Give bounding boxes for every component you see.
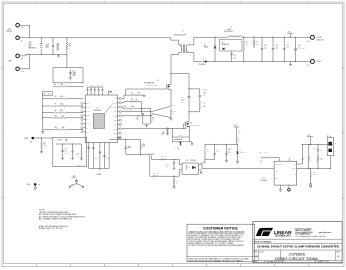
svg-text:FB: FB: [115, 137, 117, 139]
svg-text:IC NO.: IC NO.: [259, 251, 264, 253]
capacitor C4 bottom: [103, 154, 105, 156]
svg-text:C10: C10: [162, 132, 165, 134]
svg-text:61.9k: 61.9k: [76, 154, 79, 156]
svg-text:CTLHR10-06: CTLHR10-06: [198, 64, 206, 66]
svg-text:1: 1: [177, 53, 178, 55]
svg-text:100kHz: 100kHz: [77, 165, 81, 167]
op-amp U3 LT4430ES6: [274, 161, 297, 185]
svg-text:1k: 1k: [152, 119, 154, 121]
svg-text:OPT: OPT: [137, 93, 140, 95]
logo LT glyph: [256, 228, 273, 236]
svg-text:0805: 0805: [73, 75, 76, 77]
svg-text:OPT: OPT: [48, 94, 51, 96]
resistor R16 sense: [170, 109, 171, 117]
resistor R8 107k: [53, 112, 67, 113]
svg-text:GND: GND: [275, 177, 278, 179]
svg-text:CMHZ4697: CMHZ4697: [240, 151, 247, 153]
ground Q2 snubber: [189, 142, 192, 143]
svg-text:SUPPLIED FOR USE WITH LINEAR T: SUPPLIED FOR USE WITH LINEAR TECHNOLOGY …: [188, 259, 243, 262]
svg-text:C19: C19: [166, 164, 169, 166]
border zone ticks top: [36, 2, 38, 3]
diode D4 zener CMHZ4697: [237, 144, 239, 151]
svg-text:JP1: JP1: [327, 136, 330, 138]
wire comp net: [109, 138, 141, 140]
resistor R23 100: [121, 110, 124, 112]
svg-text:1206: 1206: [237, 141, 240, 143]
resistor R20 240: [173, 176, 175, 179]
resistor R5 OPT: [121, 95, 131, 98]
svg-text:C11: C11: [73, 175, 76, 177]
svg-text:Fax: (408)434-0507: Fax: (408)434-0507: [295, 233, 310, 236]
svg-text:-VIN: -VIN: [8, 61, 12, 63]
customer notice divider: [187, 256, 255, 258]
svg-text:OV: OV: [294, 174, 296, 176]
svg-text:100k: 100k: [301, 159, 304, 161]
svg-text:63HVH47M: 63HVH47M: [298, 48, 304, 50]
wire divider feed: [66, 50, 68, 68]
svg-text:OUT: OUT: [114, 111, 117, 113]
svg-text:63V: 63V: [29, 46, 31, 48]
svg-text:AOUT: AOUT: [113, 106, 117, 109]
wire clamp return: [189, 110, 200, 112]
svg-text:N/A: N/A: [254, 255, 258, 258]
svg-text:+VOUT: +VOUT: [317, 37, 322, 39]
svg-text:OPT: OPT: [181, 102, 184, 104]
title block outline: [253, 222, 342, 263]
svg-text:10: 10: [238, 132, 240, 134]
rev cell: [335, 250, 337, 260]
capacitor C2 bottom: [92, 147, 94, 149]
svg-text:D1: D1: [157, 80, 159, 82]
capacitor C28: [72, 144, 74, 151]
svg-text:R5: R5: [131, 93, 133, 95]
wire kelvin sense+: [132, 106, 171, 111]
svg-text:TITLE: SCHEMATIC: TITLE: SCHEMATIC: [254, 241, 273, 244]
svg-text:SYNC: SYNC: [86, 123, 90, 125]
capacitor C24: [317, 145, 319, 150]
border zone ticks right: [342, 67, 344, 69]
svg-text:R22: R22: [43, 143, 46, 145]
svg-text:C6E: C6E: [57, 50, 60, 52]
svg-text:SGND: SGND: [97, 174, 102, 176]
svg-text:240: 240: [176, 182, 178, 184]
svg-text:100k: 100k: [60, 84, 63, 86]
resistor R28 4M: [199, 97, 201, 102]
wire opto emitter: [199, 170, 202, 172]
svg-text:R10: R10: [55, 115, 58, 117]
capacitor C1A: [214, 144, 216, 154]
svg-text:0.1µF: 0.1µF: [216, 150, 219, 152]
svg-text:4.32k: 4.32k: [60, 104, 64, 106]
svg-text:ALL CERAMIC CAPACITORS ARE X7R: ALL CERAMIC CAPACITORS ARE X7R: [39, 218, 73, 221]
svg-text:BSC046N10NS3-G: BSC046N10NS3-G: [147, 85, 158, 87]
svg-text:R17: R17: [69, 44, 72, 46]
U1 top pins: [87, 91, 89, 95]
svg-text:U1: U1: [97, 108, 99, 110]
svg-text:2200pF: 2200pF: [72, 177, 77, 179]
svg-text:R21: R21: [124, 106, 127, 108]
ground sense resistor: [170, 117, 172, 119]
svg-text:INTVCC: INTVCC: [57, 140, 62, 142]
svg-text:R19: R19: [142, 144, 145, 146]
capacitor C5 100uF: [125, 139, 127, 147]
capacitor C2B: [225, 144, 227, 154]
U1 exposed pad: [93, 114, 104, 129]
resistor R19 100k: [140, 139, 142, 144]
svg-text:12.7k: 12.7k: [60, 96, 64, 98]
ground output: [290, 62, 292, 65]
svg-text:C4: C4: [97, 84, 99, 86]
svg-text:BOARD SIZE: 4.75" BY 2.80": BOARD SIZE: 4.75" BY 2.80": [39, 227, 63, 230]
svg-text:C1: C1: [237, 137, 239, 139]
svg-text:1µF: 1µF: [95, 158, 97, 160]
wire primary top: [171, 40, 181, 45]
svg-text:RT: RT: [86, 119, 88, 121]
svg-text:T1: T1: [182, 31, 184, 33]
svg-text:OPT: OPT: [320, 150, 323, 152]
svg-text:D9: D9: [204, 45, 206, 47]
svg-text:R16: R16: [173, 105, 176, 107]
wire fb row return: [205, 159, 215, 161]
wire U3 top feed: [288, 158, 290, 161]
svg-text:2.2µF: 2.2µF: [165, 166, 168, 168]
svg-text:R4: R4: [131, 99, 133, 101]
svg-text:E3: E3: [22, 27, 24, 29]
svg-text:+VIN: +VIN: [7, 29, 12, 31]
svg-text:VOUT–: VOUT–: [317, 61, 322, 63]
diode D9 freewheel: [214, 37, 216, 45]
wire +VIN rail: [30, 37, 171, 39]
date row: [264, 260, 266, 262]
svg-text:1206: 1206: [234, 58, 237, 60]
svg-text:1µF: 1µF: [102, 84, 104, 86]
svg-text:OFF: OFF: [334, 150, 337, 152]
diode D5 BAS516: [179, 142, 182, 144]
svg-text:R18: R18: [153, 173, 156, 175]
resistor R10 41.2k: [53, 117, 67, 118]
svg-text:0.010: 0.010: [173, 111, 176, 113]
svg-text:E1: E1: [39, 184, 41, 186]
svg-text:LT3753EFE: LT3753EFE: [93, 110, 101, 112]
svg-text:COMP: COMP: [292, 168, 296, 170]
U1 bottom pins: [88, 143, 90, 169]
wire top caps bus: [88, 86, 103, 88]
svg-text:ISNS+: ISNS+: [113, 120, 117, 122]
svg-text:CMMR1U-06: CMMR1U-06: [222, 44, 230, 46]
ground GND terminal: [34, 186, 36, 188]
svg-text:C5: C5: [128, 145, 130, 147]
svg-text:51k: 51k: [43, 145, 45, 147]
wire VIN rail drop: [170, 38, 172, 40]
wire comp feed: [301, 145, 303, 164]
svg-text:R29: R29: [313, 172, 316, 174]
svg-text:Thursday, July 23, 2015: Thursday, July 23, 2015: [266, 260, 284, 263]
svg-text:E9: E9: [308, 65, 310, 67]
wire divider left bus: [42, 94, 44, 130]
wire opto collector: [199, 165, 275, 169]
svg-text:IN: IN: [294, 163, 295, 165]
svg-text:C2: C2: [86, 84, 88, 86]
wire U3 right pins: [297, 163, 303, 165]
svg-text:DELAY: DELAY: [86, 102, 90, 105]
svg-text:PQ20/150-500: PQ20/150-500: [224, 31, 233, 33]
wire secondary top: [187, 37, 215, 45]
capacitor C22 output: [261, 37, 263, 48]
svg-text:PS2801-1: PS2801-1: [190, 160, 196, 162]
svg-text:R7: R7: [55, 104, 57, 106]
svg-text:GND: GND: [27, 184, 31, 186]
svg-text:18V-36V: 18V-36V: [6, 31, 12, 33]
capacitor C26 output bulk: [295, 37, 297, 48]
transistor Q4 OPT: [43, 91, 53, 95]
resistor R13 1M snubber: [253, 40, 254, 46]
U3 bottom pins: [280, 185, 282, 190]
snubber R25 box: [172, 137, 189, 142]
svg-text:10nF: 10nF: [237, 139, 240, 141]
svg-text:250V: 250V: [71, 184, 74, 186]
svg-text:TECHNOLOGY APPLICATIONS ENGINE: TECHNOLOGY APPLICATIONS ENGINEERING FOR …: [188, 244, 244, 247]
net +VO flag: [290, 33, 292, 37]
snubber D8 box: [220, 40, 243, 52]
svg-text:100µH: 100µH: [227, 29, 231, 31]
svg-text:10: 10: [157, 173, 159, 175]
svg-text:R25 10: R25 10: [178, 134, 182, 136]
border zone ticks left: [2, 67, 4, 69]
svg-text:ON: ON: [334, 143, 336, 145]
svg-text:100k: 100k: [142, 146, 145, 148]
resistor R30 100k: [308, 145, 310, 156]
wire secondary bottom: [187, 52, 202, 61]
capacitor C1 bottom: [88, 146, 90, 148]
U1 right pins: [118, 97, 120, 99]
customer notice box: [187, 224, 255, 262]
svg-text:PQ26/20 (D3)-GP3: PQ26/20 (D3)-GP3: [174, 35, 186, 37]
transistor Q2 clamp switch: [185, 122, 187, 127]
svg-text:R6: R6: [54, 84, 56, 86]
svg-text:C17: C17: [136, 117, 139, 119]
svg-text:Q2: Q2: [190, 123, 192, 125]
svg-text:107k: 107k: [60, 110, 63, 112]
svg-text:Q4: Q4: [44, 94, 46, 96]
resistor R22 51k: [41, 142, 42, 150]
ground top caps: [108, 90, 111, 92]
svg-text:1.2k: 1.2k: [207, 150, 210, 152]
svg-text:7: 7: [190, 43, 191, 45]
svg-text:BSC093N04LS-G: BSC093N04LS-G: [190, 125, 200, 127]
capacitor C12: [62, 144, 64, 150]
U1 left pins: [84, 102, 86, 104]
svg-text:D4: D4: [240, 150, 242, 152]
border zone ticks bottom: [36, 264, 38, 267]
svg-text:0805: 0805: [65, 153, 68, 155]
svg-text:INTVCC: INTVCC: [112, 102, 117, 104]
wire clamp branch: [171, 74, 189, 97]
wire fb row bus: [205, 143, 238, 145]
resistor R11 1k: [150, 109, 152, 116]
terminal E4 -VIN sense: [16, 67, 20, 71]
wire C17 R11 gnd bus: [143, 123, 151, 125]
wire primary bottom to switch: [171, 52, 181, 84]
svg-text:UVLO: UVLO: [86, 111, 89, 113]
svg-text:C24: C24: [313, 148, 316, 150]
svg-text:R20: R20: [176, 181, 179, 183]
capacitor C8 snubber: [231, 51, 233, 53]
net flag A: [118, 137, 121, 140]
capacitor C14 clamp series: [188, 95, 191, 97]
svg-text:1210: 1210: [275, 48, 278, 50]
wire Q5 source sense: [170, 92, 172, 106]
terminal E9 VOUT-: [310, 60, 314, 64]
svg-text:CUSTOMER NOTICE: CUSTOMER NOTICE: [203, 226, 238, 230]
svg-text:VIN: VIN: [115, 98, 117, 100]
svg-text:ISNS-: ISNS-: [114, 124, 118, 126]
resistor R15 100k: [54, 129, 68, 130]
resistor R6 100k: [56, 86, 69, 87]
svg-text:E2: E2: [21, 41, 23, 43]
svg-text:E1: E1: [21, 58, 23, 60]
title block divider rows: [253, 238, 342, 240]
INTVCC aux box: [53, 138, 87, 167]
wire AOUT gate drive Q2: [121, 127, 185, 129]
svg-text:C8A: C8A: [29, 41, 32, 44]
resistor R12 1M snubber: [243, 40, 244, 51]
svg-text:2512: 2512: [245, 44, 248, 46]
svg-text:R30: R30: [302, 157, 305, 159]
svg-text:C3: C3: [91, 84, 93, 86]
resistor R21 3.01k: [121, 107, 123, 108]
terminal E1 -VIN: [16, 54, 20, 58]
capacitor C25 output: [283, 37, 285, 48]
svg-text:U3: U3: [263, 178, 265, 180]
svg-text:U2: U2: [186, 160, 188, 162]
svg-text:R32: R32: [77, 152, 80, 154]
svg-text:1210: 1210: [264, 48, 267, 50]
svg-text:0805: 0805: [228, 152, 231, 154]
svg-text:SHEET 1 OF 1: SHEET 1 OF 1: [318, 261, 329, 263]
ground input bank: [58, 54, 60, 55]
svg-text:2.2µF: 2.2µF: [161, 134, 165, 136]
svg-text:D8: D8: [222, 42, 224, 44]
svg-text:R9: R9: [55, 96, 57, 98]
transformer T1: [180, 45, 183, 53]
svg-text:12: 12: [190, 54, 192, 56]
ground divider fb: [310, 178, 312, 183]
svg-text:0.1µF: 0.1µF: [106, 158, 109, 160]
svg-text:E6: E6: [30, 142, 32, 144]
terminal E2 +VIN: [16, 36, 20, 40]
size cell: [257, 250, 259, 260]
resistor R9 12.7k: [53, 98, 67, 99]
resistor R17 input divider: [66, 38, 68, 42]
svg-text:R15: R15: [55, 127, 58, 129]
svg-text:18-36VIN, 54VOUT ACTIVE CLAMP: 18-36VIN, 54VOUT ACTIVE CLAMP FORWARD CO…: [257, 245, 340, 249]
capacitor C19 2.2uF: [173, 159, 175, 162]
svg-text:0.1µF: 0.1µF: [259, 162, 262, 164]
ground divider: [42, 132, 44, 134]
capacitor C3 bottom: [99, 151, 101, 153]
svg-text:R1A: R1A: [238, 130, 241, 133]
svg-text:100V: 100V: [203, 95, 206, 97]
svg-text:LT4430ES6: LT4430ES6: [260, 180, 267, 182]
terminal E3 +VIN sense: [16, 23, 20, 27]
svg-text:R27: R27: [320, 157, 323, 159]
svg-text:FB: FB: [275, 170, 277, 172]
capacitor C15 0.47uF clamp: [189, 89, 200, 95]
svg-text:9.53k: 9.53k: [313, 174, 316, 176]
wire sync: [34, 137, 53, 139]
svg-text:1M: 1M: [69, 45, 72, 47]
svg-text:100k: 100k: [62, 127, 65, 129]
op-amp U1 LT3753EFE outline: [86, 95, 118, 143]
svg-text:2.2nF: 2.2nF: [136, 118, 140, 120]
svg-text:1210: 1210: [46, 47, 49, 49]
terminal E8 +VOUT: [310, 35, 314, 39]
resistor R18 10: [152, 176, 158, 177]
capacitor C17 2.2nF: [142, 113, 144, 115]
resistor R29B 9.53k: [310, 169, 312, 171]
svg-text:SWEN: SWEN: [113, 115, 117, 117]
wire SGND bus: [89, 167, 109, 169]
svg-text:3.01k: 3.01k: [131, 106, 135, 108]
svg-text:www.linear.com: www.linear.com: [319, 232, 332, 234]
capacitor C23 output: [272, 37, 274, 48]
resistor R27 1.78k: [317, 156, 318, 162]
svg-text:TBLNK: TBLNK: [86, 115, 90, 117]
wire Q2 source down: [187, 126, 189, 128]
svg-text:4: 4: [177, 43, 178, 45]
resistor R7 4.32k: [54, 105, 67, 106]
svg-text:R8: R8: [55, 110, 57, 112]
svg-text:6.2k: 6.2k: [265, 152, 268, 154]
wire -VIN rail: [30, 53, 67, 55]
svg-text:REV.: REV.: [337, 251, 341, 253]
svg-text:D2: D2: [203, 58, 205, 60]
svg-text:1%: 1%: [173, 113, 176, 115]
wire R4-R21 junction: [141, 102, 143, 114]
svg-text:E8: E8: [308, 41, 310, 43]
svg-text:COMP: COMP: [113, 133, 117, 135]
resistor R14 1.2k: [204, 144, 206, 146]
svg-text:FLT: FLT: [86, 131, 88, 133]
svg-text:SIZE: SIZE: [254, 251, 257, 253]
resistor R23 100: [152, 158, 160, 160]
wire input bus: [19, 25, 29, 38]
svg-text:R23: R23: [161, 156, 164, 158]
resistor R32 61.9k: [81, 144, 83, 151]
svg-text:COLLECTOR: COLLECTOR: [275, 163, 282, 165]
wire gate drive: [126, 89, 167, 95]
svg-text:L1: L1: [230, 27, 232, 29]
wire comp bus: [126, 154, 150, 156]
svg-text:D5: D5: [177, 146, 179, 148]
svg-text:SYNC: SYNC: [24, 138, 29, 140]
svg-text:63HVH56M: 63HVH56M: [29, 48, 37, 50]
svg-text:OVLO: OVLO: [86, 107, 90, 109]
svg-text:1210: 1210: [203, 106, 206, 108]
svg-text:SECDARH1DN26: SECDARH1DN26: [144, 81, 155, 84]
svg-text:C1A: C1A: [216, 148, 219, 151]
resistor R4 1k: [121, 102, 131, 103]
ground R22: [41, 150, 43, 152]
svg-text:INTVCC: INTVCC: [150, 154, 155, 156]
svg-text:1.78k: 1.78k: [320, 159, 323, 161]
svg-text:41.2k: 41.2k: [61, 115, 65, 117]
wire kelvin sense-: [121, 114, 171, 118]
ic no cell: [280, 250, 282, 260]
capacitor C9 box: [53, 68, 83, 83]
svg-text:E4: E4: [22, 71, 24, 73]
svg-text:R26: R26: [260, 152, 263, 154]
